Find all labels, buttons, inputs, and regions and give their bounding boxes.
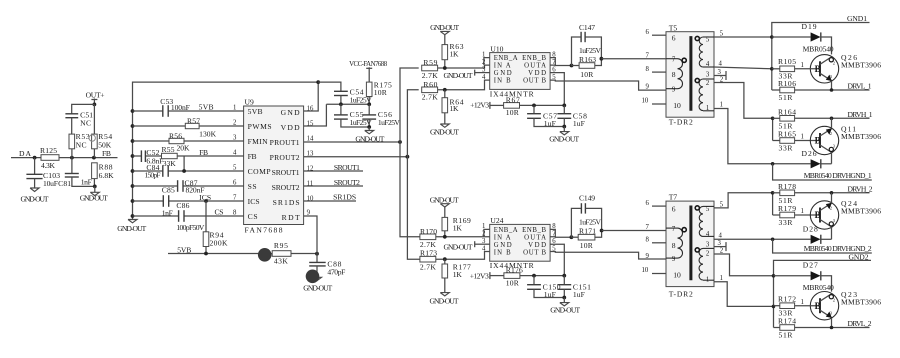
svg-text:GND-OUT: GND-OUT (21, 195, 49, 204)
svg-text:2: 2 (833, 297, 835, 302)
capacitor C81 (58, 158, 95, 189)
svg-text:3: 3 (482, 66, 486, 73)
pin 9 T5 (646, 84, 676, 94)
wire R55 down branch to COMP row (183, 156, 185, 171)
svg-text:9: 9 (672, 87, 676, 94)
pin 10 T5 (642, 98, 681, 110)
junction ICS-R94 (204, 199, 208, 203)
pin 14 U9 (307, 136, 314, 143)
svg-text:R163: R163 (579, 55, 596, 64)
pin 9 T7 (646, 253, 676, 263)
junction bus pin5 row (131, 169, 135, 173)
junction R94 on 5VB line (204, 252, 208, 256)
pin 6 U24 (552, 238, 556, 245)
polarity dot T7 primary (682, 228, 686, 232)
junction R55 branch COMP (182, 169, 186, 173)
transformer T7 secondary top winding (699, 206, 714, 236)
svg-text:C85: C85 (162, 186, 175, 195)
resistor R171 (571, 227, 601, 250)
junction D19 anode (770, 35, 774, 39)
capacitor C86 (176, 201, 205, 232)
svg-text:1: 1 (720, 102, 723, 109)
svg-text:1K: 1K (453, 270, 463, 279)
transistor-driver U10 box (490, 44, 550, 98)
svg-text:1uF25V: 1uF25V (579, 217, 602, 226)
resistor R95 (272, 241, 317, 265)
svg-text:R105: R105 (778, 57, 796, 66)
svg-text:3: 3 (718, 69, 722, 76)
svg-text:7: 7 (672, 57, 676, 64)
capacitor C57 (527, 105, 564, 128)
transistor-driver U24 box (490, 216, 550, 270)
svg-text:MMBT3906: MMBT3906 (841, 61, 881, 70)
svg-text:SR1DS: SR1DS (273, 198, 300, 207)
svg-text:ENB_B: ENB_B (522, 227, 546, 234)
wire OUTA row (550, 64, 571, 66)
wire to T5 pin 7 (601, 58, 666, 60)
ground GND-OUT above R63 (430, 23, 459, 44)
svg-text:1: 1 (720, 275, 723, 282)
power OUT+ (86, 90, 105, 104)
junction row-R53 (70, 156, 74, 160)
svg-text:5: 5 (233, 165, 237, 172)
svg-text:+12V3: +12V3 (470, 101, 489, 110)
svg-text:1: 1 (706, 105, 709, 112)
svg-text:51R: 51R (779, 331, 794, 340)
pin 8 T5 (646, 66, 676, 79)
svg-text:10: 10 (673, 101, 681, 110)
wire pin10 SR1DS (304, 193, 357, 202)
capacitor C58 (557, 105, 587, 128)
junction OUTA node (570, 64, 574, 68)
svg-text:2: 2 (830, 205, 832, 210)
wire OUTA row U24 (550, 236, 571, 238)
svg-text:1K: 1K (453, 224, 463, 233)
transformer T7 core (689, 206, 692, 281)
resistor R170 (420, 227, 490, 249)
junction R169-R170 (443, 235, 447, 239)
pin 5 T5 (706, 31, 772, 44)
op-amp U9 FAN7688 box (244, 98, 304, 235)
svg-text:2.7K: 2.7K (422, 93, 439, 102)
svg-text:50K: 50K (98, 140, 112, 149)
wire row7 ICS (133, 200, 244, 202)
svg-text:5: 5 (720, 201, 724, 208)
svg-text:5: 5 (706, 37, 710, 44)
svg-text:C147: C147 (579, 23, 595, 32)
wire VDD pin6 riser U24 (550, 244, 564, 275)
junction bus pin8 row (131, 214, 135, 218)
svg-text:DRVL_1: DRVL_1 (848, 82, 872, 91)
svg-text:150pF: 150pF (145, 171, 161, 180)
junction R63-R59 (443, 66, 447, 70)
svg-text:GND-OUT: GND-OUT (303, 283, 332, 292)
pin 3 U9 (233, 135, 237, 142)
capacitor C56 (362, 104, 400, 127)
junction C56 ground (367, 125, 371, 129)
diode D19 (772, 22, 834, 54)
svg-text:6: 6 (672, 34, 676, 43)
svg-text:1: 1 (482, 51, 485, 58)
blob annotation left of R95 (258, 248, 272, 262)
pin 15 U9 (307, 121, 314, 128)
wire ICS down to R94 (205, 201, 207, 232)
capacitor C55 (334, 104, 372, 127)
junction bus pin2 row (131, 124, 135, 128)
svg-text:D19: D19 (802, 22, 817, 31)
wire RDT riser from pin9 (304, 216, 317, 254)
wire OUT B to T5 pin9 (550, 80, 666, 90)
svg-text:R57: R57 (187, 116, 200, 125)
wire pin15 VDD riser (304, 104, 327, 126)
svg-text:5: 5 (706, 206, 710, 213)
svg-text:1uF25V: 1uF25V (579, 46, 602, 55)
svg-text:DRVH_2: DRVH_2 (848, 185, 873, 194)
svg-text:GND-OUT: GND-OUT (430, 296, 459, 305)
wire OUT B to T7 pin9 (550, 252, 668, 260)
junction bus pin3 row (131, 139, 135, 143)
svg-text:4: 4 (719, 61, 723, 68)
capacitor C87 (178, 179, 205, 195)
svg-text:100pF50V: 100pF50V (176, 223, 205, 232)
resistor R175 (366, 80, 392, 104)
power +12V3 bottom (470, 272, 504, 281)
svg-text:ENB_A: ENB_A (494, 55, 518, 62)
svg-text:SROUT2: SROUT2 (272, 183, 300, 192)
svg-text:FB: FB (199, 148, 208, 157)
resistor R176 (504, 266, 564, 288)
capacitor C88 (309, 254, 345, 278)
capacitor C85 (162, 186, 175, 218)
ground GND-OUT above R169 (430, 196, 459, 218)
svg-text:2: 2 (706, 80, 710, 87)
resistor R125 (40, 146, 59, 170)
pin 6 T5 (646, 29, 676, 43)
polarity dot T5 secondary bottom (695, 78, 699, 82)
junction block2 feed (771, 117, 775, 121)
svg-text:2: 2 (482, 231, 486, 238)
transformer T7 primary winding (666, 228, 683, 258)
junction C81-R88 ground (93, 185, 97, 189)
junction C150 tap (532, 274, 536, 278)
svg-text:ENB_A: ENB_A (494, 227, 518, 234)
junction PROUT1 vertical (398, 140, 402, 144)
junction R173-R177 (443, 257, 447, 261)
svg-text:R125: R125 (40, 146, 57, 155)
svg-text:1uF: 1uF (544, 119, 556, 128)
pin 5 T7 to block3 bus (706, 193, 773, 213)
svg-text:D26: D26 (802, 149, 817, 158)
junction Q26 emitter DRVL_1 (830, 88, 834, 92)
svg-text:R174: R174 (778, 317, 796, 326)
pin 4 U9 (233, 150, 237, 157)
pin 4 U10 (482, 74, 486, 81)
svg-text:8: 8 (233, 210, 237, 217)
svg-text:1: 1 (801, 134, 804, 141)
svg-text:10R: 10R (506, 108, 520, 117)
svg-text:GND-OUT: GND-OUT (444, 242, 473, 251)
pin 1 U24 (482, 223, 485, 230)
wire OUT+ to C51 branch (72, 104, 95, 113)
svg-text:C86: C86 (176, 201, 189, 210)
ground GND-OUT under C55 C56 (355, 127, 384, 144)
ground GND-OUT under C150 C151 (550, 298, 580, 315)
pin 7 T7 (646, 224, 676, 233)
svg-text:7: 7 (646, 224, 650, 231)
junction C54-VDD row (339, 102, 343, 106)
ground GND-OUT under R64 (430, 124, 459, 137)
svg-text:VDD: VDD (528, 70, 546, 77)
junction D28 anode (771, 238, 775, 242)
resistor R94 (203, 231, 228, 254)
transformer T5 core (689, 36, 692, 111)
svg-text:GND: GND (494, 70, 512, 77)
junction bus pin1 row (131, 109, 135, 113)
wire 5VB bottom line (168, 245, 272, 254)
resistor R64 (442, 90, 464, 124)
svg-text:R106: R106 (778, 79, 796, 88)
junction C88 tap (315, 252, 319, 256)
svg-text:2: 2 (706, 250, 710, 257)
pin 6 U9 (233, 180, 237, 187)
svg-text:DRVH_1: DRVH_1 (848, 110, 873, 119)
node GND-OUT label U10 pin3 (444, 70, 490, 80)
capacitor C103 (26, 158, 60, 188)
svg-text:T-DR2: T-DR2 (669, 118, 693, 127)
svg-text:MMBT3906: MMBT3906 (841, 297, 881, 306)
svg-text:4: 4 (233, 150, 237, 157)
svg-text:6: 6 (646, 200, 650, 207)
node CS (215, 208, 224, 217)
svg-text:GND-OUT: GND-OUT (117, 224, 146, 233)
node 5VB row1 (199, 103, 214, 112)
svg-text:470pF: 470pF (327, 268, 345, 277)
svg-text:1: 1 (706, 276, 709, 283)
wire VDD pin6 riser (550, 73, 564, 106)
svg-text:9: 9 (646, 84, 650, 91)
svg-text:T5: T5 (669, 23, 678, 32)
wire row1 5VB (133, 110, 244, 112)
pin 5 U24 (552, 246, 556, 253)
resistor R179 (773, 204, 820, 227)
svg-text:10: 10 (642, 267, 649, 274)
svg-text:1: 1 (801, 62, 804, 69)
svg-text:FB: FB (102, 149, 111, 158)
junction VDD-R67 (562, 104, 566, 108)
svg-text:C149: C149 (579, 193, 595, 202)
svg-text:B: B (815, 301, 821, 311)
ground GND-OUT under C88 (303, 277, 332, 292)
node ICS (199, 193, 211, 202)
svg-text:ENB_B: ENB_B (522, 55, 546, 62)
svg-text:5VB: 5VB (248, 107, 263, 116)
power VCC-FAN7688 (349, 61, 388, 82)
svg-text:3: 3 (233, 135, 237, 142)
junction R171-C149 to T7 pin7 (600, 229, 604, 233)
svg-text:+12V3: +12V3 (470, 272, 489, 281)
resistor R56 (169, 131, 190, 152)
svg-text:R55: R55 (162, 145, 175, 154)
node DRVH_2 (848, 185, 873, 194)
svg-text:8: 8 (672, 70, 676, 79)
svg-text:B: B (815, 210, 821, 220)
svg-text:D28: D28 (803, 225, 818, 234)
junction C58 ground (562, 125, 566, 129)
junction R60-R64 (443, 88, 447, 92)
node GND-OUT label U24 pin3 (444, 241, 490, 251)
svg-text:T-DR2: T-DR2 (669, 290, 693, 299)
pin 1 T7 to R172 row (706, 275, 774, 307)
svg-text:FMIN: FMIN (248, 137, 269, 146)
junction bus pin7 row (131, 199, 135, 203)
resistor R88 (92, 163, 115, 187)
wire GND top line to left bus (133, 82, 319, 216)
svg-text:OUT B: OUT B (523, 78, 546, 85)
svg-text:6: 6 (233, 180, 237, 187)
svg-text:B: B (815, 136, 821, 146)
svg-text:PWMS: PWMS (248, 122, 272, 131)
svg-text:5VB: 5VB (199, 103, 214, 112)
svg-text:10R: 10R (580, 70, 594, 79)
resistor R55 (162, 145, 178, 168)
wire DA row (11, 157, 118, 159)
node GND1 (847, 14, 867, 23)
svg-text:51R: 51R (779, 93, 794, 102)
pin 6 T7 (646, 200, 676, 214)
resistor R59 (422, 58, 490, 80)
wire DRVHGND_1 net (773, 164, 872, 180)
capacitor C54 (334, 88, 372, 105)
wire pin13 PROUT2 (304, 156, 408, 158)
svg-text:1uF: 1uF (544, 290, 556, 299)
svg-text:RDT: RDT (282, 213, 300, 222)
junction D26 anode (771, 162, 775, 166)
svg-text:2: 2 (720, 248, 724, 255)
wire PROUT1 vertical to R59 and R170 (400, 68, 420, 237)
svg-text:5: 5 (720, 31, 724, 38)
pin 2 T5 to block2 bus (706, 77, 773, 119)
svg-text:VCC-FAN7688: VCC-FAN7688 (349, 61, 388, 68)
svg-text:NC: NC (76, 140, 87, 149)
svg-text:GND-OUT: GND-OUT (549, 134, 579, 143)
wire bus block2 (772, 118, 774, 140)
junction row-R54 (92, 156, 96, 160)
wire row2 PWMS (133, 125, 244, 127)
junction VDD-R176 (562, 274, 566, 278)
transformer T5 box (666, 23, 714, 126)
svg-text:3: 3 (482, 238, 486, 245)
node DRVL_2 (848, 319, 872, 328)
wire ENB_B tie to OUTA U24 (550, 229, 555, 236)
junction R163-C147 to T5 pin7 (600, 57, 604, 61)
svg-text:43K: 43K (274, 257, 289, 266)
svg-text:DA: DA (19, 149, 32, 158)
node FB row4 (199, 148, 208, 157)
wire row3 FMIN (133, 140, 244, 142)
resistor R163 (572, 55, 602, 79)
svg-text:COMP: COMP (248, 167, 271, 176)
wire ENB_A tie to IN A U24 (484, 229, 490, 236)
svg-text:R164: R164 (778, 107, 796, 116)
wire row4 FB (133, 155, 244, 157)
svg-text:FB: FB (248, 152, 257, 161)
resistor R60 (422, 80, 490, 102)
svg-text:4: 4 (482, 74, 486, 81)
svg-text:R165: R165 (778, 129, 796, 138)
pin 16 U9 (307, 106, 314, 113)
pin 13 U9 (307, 151, 314, 158)
wire OUT+ to R54 (93, 104, 95, 134)
junction pin16 top line (316, 80, 320, 84)
svg-text:NC: NC (80, 118, 91, 127)
diode D26 (773, 149, 832, 168)
svg-text:6: 6 (646, 29, 650, 36)
svg-text:U10: U10 (490, 44, 503, 53)
wire PROUT2 vertical to R60 and R173 (407, 90, 420, 259)
svg-text:130K: 130K (199, 130, 217, 139)
wire VDD node row (326, 103, 369, 105)
junction R172 row (772, 305, 776, 309)
svg-text:6.8K: 6.8K (99, 171, 115, 180)
wire top line to C54 (318, 82, 341, 91)
transistor Q11 MMBT3906 (810, 118, 881, 164)
pin 8 T7 (646, 237, 676, 250)
pin 1 T5 to D26 row (706, 102, 773, 164)
svg-text:1K: 1K (450, 104, 460, 113)
svg-text:3: 3 (718, 240, 722, 247)
svg-text:OUTA: OUTA (524, 63, 546, 70)
svg-text:4: 4 (706, 231, 710, 238)
resistor R178 (773, 182, 870, 205)
svg-text:1: 1 (482, 223, 485, 230)
ground GND-OUT under left bus (117, 216, 146, 233)
resistor R172 (774, 295, 804, 318)
svg-text:GND-OUT: GND-OUT (550, 305, 580, 314)
svg-text:20K: 20K (177, 144, 191, 153)
svg-text:2.7K: 2.7K (420, 262, 437, 271)
polarity dot T7 secondary bottom (695, 248, 699, 252)
wire row6 SS (133, 185, 244, 187)
node DRVH_1 (848, 110, 873, 119)
svg-text:PROUT2: PROUT2 (270, 153, 300, 162)
capacitor C51 (65, 111, 93, 135)
svg-text:R60: R60 (423, 80, 437, 89)
wire pin14 PROUT1 (304, 141, 400, 143)
pin 12 U9 (307, 166, 314, 173)
capacitor C149 (571, 193, 601, 237)
pin 7 U24 (552, 231, 556, 238)
pin 11 U9 (307, 181, 314, 188)
svg-text:200K: 200K (210, 239, 229, 248)
svg-text:2: 2 (482, 59, 486, 66)
svg-text:6: 6 (672, 204, 676, 213)
junction Q23 emitter DRVL_2 (830, 326, 834, 330)
svg-text:OUT+: OUT+ (86, 90, 105, 99)
pin 4 T7 to D28 row (706, 231, 773, 239)
svg-text:R178: R178 (778, 182, 796, 191)
svg-text:GND-OUT: GND-OUT (430, 128, 459, 137)
pin 8 U10 (552, 51, 556, 58)
pin 4 T5 (706, 61, 772, 69)
pin 2 T7 to D27 row (706, 248, 774, 276)
svg-text:1K: 1K (450, 50, 460, 59)
svg-text:T7: T7 (669, 193, 678, 202)
power +12V3 top (470, 101, 504, 110)
svg-text:10R: 10R (506, 279, 520, 288)
junction OUT+ (93, 103, 97, 107)
pin 2 U24 (482, 231, 486, 238)
svg-text:MBR0540: MBR0540 (803, 45, 834, 54)
